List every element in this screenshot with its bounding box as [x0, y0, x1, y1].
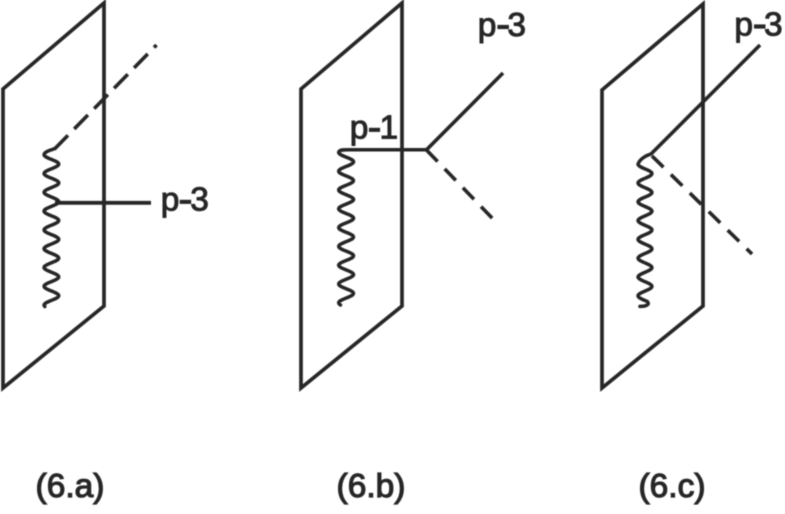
- label p-3 (6.a): [161, 182, 209, 219]
- svg-text:(6.a): (6.a): [36, 468, 105, 505]
- dashed closed-string line (6.a): [54, 45, 156, 149]
- label p-1 (6.b): [350, 110, 398, 147]
- svg-text:p: p: [734, 7, 753, 44]
- svg-text:3: 3: [764, 7, 783, 44]
- label p-3 (6.c): [734, 7, 782, 44]
- svg-text:3: 3: [190, 182, 209, 219]
- label p-3 (6.b): [478, 7, 526, 44]
- dashed closed-string line (6.c): [652, 156, 752, 254]
- outgoing p-3 string (6.b): [427, 73, 504, 150]
- svg-text:3: 3: [507, 7, 526, 44]
- D-brane plane (6.b): [301, 3, 402, 388]
- svg-text:p: p: [161, 182, 180, 219]
- svg-text:(6.c): (6.c): [639, 468, 706, 505]
- svg-text:p: p: [478, 7, 497, 44]
- dashed closed-string line (6.b): [427, 150, 494, 220]
- p-3 leg line (6.a): [55, 201, 151, 205]
- wavy photon line with p-1 leg (6.b): [339, 150, 427, 305]
- D-brane plane (6.a): [3, 3, 104, 388]
- wavy photon line (6.c): [638, 154, 652, 306]
- D-brane plane (6.c): [602, 4, 703, 388]
- svg-text:1: 1: [380, 110, 399, 147]
- incoming p-3 string (6.c): [651, 45, 761, 155]
- svg-text:p: p: [350, 110, 369, 147]
- wavy photon line (6.a): [44, 149, 59, 307]
- svg-text:(6.b): (6.b): [337, 468, 406, 505]
